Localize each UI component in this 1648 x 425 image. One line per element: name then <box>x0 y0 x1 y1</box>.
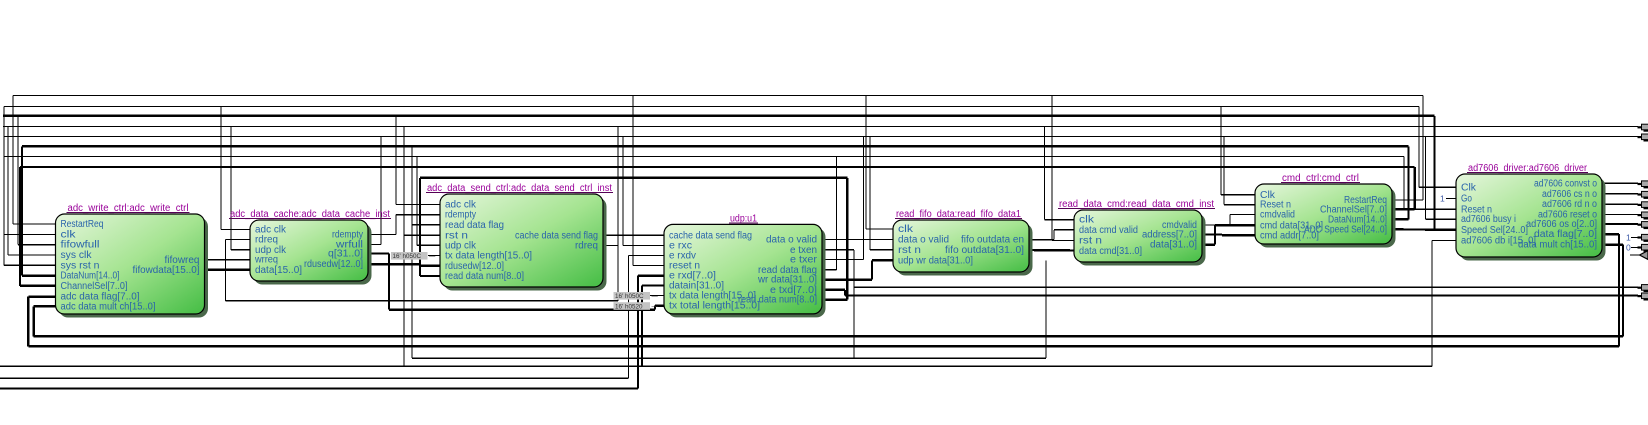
output pin pin L5 <box>1638 134 1648 142</box>
constant 16' h050C <box>391 252 436 260</box>
wire net L7 top <box>4 156 1404 158</box>
wire U8 busy input <box>1426 136 1457 219</box>
output pin ad7606_os_o <box>1638 222 1648 230</box>
module adc_data_send_ctrl:adc_data_send_ctrl_inst <box>426 183 613 291</box>
svg-text:data[15..0]: data[15..0] <box>255 265 302 276</box>
wire q bus to tx_total <box>368 254 664 310</box>
svg-text:Go: Go <box>1461 194 1472 205</box>
svg-text:read data num[8..0]: read data num[8..0] <box>738 295 817 306</box>
wire U8 Clk input <box>1419 107 1456 188</box>
wire U3 adc_clk input <box>396 116 440 205</box>
svg-text:tx data length[15..0]: tx data length[15..0] <box>445 250 532 261</box>
svg-text:—: — <box>652 293 659 300</box>
wire fifo_outdata bus <box>1029 249 1074 252</box>
wire ChannelSel riser bus <box>1392 167 1415 209</box>
svg-text:data cmd valid: data cmd valid <box>1079 225 1138 236</box>
svg-text:16' h050C: 16' h050C <box>393 253 422 260</box>
wire data_o_valid net <box>822 239 893 241</box>
wire U4 e_rxd input bus <box>0 276 664 389</box>
wire U5 clk input <box>866 96 893 230</box>
wire U1 RestartReq input <box>13 96 56 225</box>
wire U3 read_data_flag input <box>412 146 440 358</box>
svg-text:0: 0 <box>1626 243 1631 253</box>
svg-text:rst n: rst n <box>898 245 921 256</box>
wire rdempty net <box>368 215 440 235</box>
output pin ad7606_cs_n_o <box>1638 191 1648 199</box>
output pin pin const0 <box>1638 244 1648 252</box>
wire fifowdata bus <box>205 269 251 271</box>
svg-text:ADC Speed Sel[24..0]: ADC Speed Sel[24..0] <box>1304 224 1387 235</box>
wire e_txen net to pin <box>822 250 1638 358</box>
wire ad7606_rd_n_o net <box>1602 203 1638 205</box>
wire wrfull net <box>368 136 381 244</box>
constant 1 (pin) <box>1626 233 1638 243</box>
svg-text:adc data mult ch[15..0]: adc data mult ch[15..0] <box>61 302 156 313</box>
svg-text:q[31..0]: q[31..0] <box>328 249 363 260</box>
module read_fifo_data:read_fifo_data1 <box>893 209 1033 276</box>
wire mid line 358 <box>412 261 1046 359</box>
wire feedback data_mult_ch bus <box>34 245 1623 337</box>
output pin pin L4 <box>1638 124 1648 132</box>
svg-text:—: — <box>652 303 659 310</box>
svg-text:read data num[8..0]: read data num[8..0] <box>445 271 524 282</box>
output pin pin e_txd <box>1638 293 1648 301</box>
wire net L9 read_data_num loop bus <box>420 177 847 179</box>
svg-text:ad7606 convst o: ad7606 convst o <box>1534 178 1597 189</box>
wire U1 ChannelSel input bus <box>20 167 56 286</box>
constant 0 (pin) <box>1626 243 1638 253</box>
wire RestartReq riser <box>1392 96 1423 201</box>
output pin ad7606_reset_o <box>1638 212 1648 220</box>
wire U4 datain input bus <box>642 286 664 367</box>
wire read_data_num loop drop bus <box>420 178 440 276</box>
wire U1 clk input <box>4 107 56 235</box>
svg-text:rdusedw[12..0]: rdusedw[12..0] <box>304 259 363 270</box>
wire U3 tx_data_length const wire <box>428 254 440 256</box>
svg-text:ad7606 busy i: ad7606 busy i <box>1461 214 1516 225</box>
wire U4 vertical at 618 <box>617 127 619 246</box>
module adc_write_ctrl:adc_write_ctrl <box>56 203 209 318</box>
svg-text:data flag[7..0]: data flag[7..0] <box>1534 229 1597 240</box>
module udp:u1 <box>664 213 826 317</box>
wire rdusedw bus <box>368 264 440 266</box>
wire U6 rst_n input <box>1052 96 1074 241</box>
wire U2 adc_clk input <box>221 107 250 230</box>
wire read_data_flag net up <box>822 157 837 270</box>
wire U1 fifowfull input <box>18 116 56 245</box>
wire net L3 top bus <box>3 115 1435 117</box>
wire fifo_outdata_en net <box>1029 230 1074 240</box>
wire wr_data bus to U5 <box>822 260 893 279</box>
wire net L6 DataNum bus <box>22 145 1409 147</box>
wire address bus <box>1202 233 1255 236</box>
module adc_data_cache:adc_data_cache_inst <box>229 209 391 285</box>
svg-text:data cmd[31..0]: data cmd[31..0] <box>1079 246 1142 257</box>
wire net L8 ChannelSel bus <box>20 166 1415 168</box>
svg-text:16' h0520: 16' h0520 <box>615 303 643 310</box>
wire U1 DataNum input bus <box>22 146 56 275</box>
wire rdreq loop net <box>226 240 618 301</box>
wire cache_data_send_flag net <box>603 234 664 236</box>
wire read_data_num riser bus <box>822 178 847 300</box>
constant 1 (Go input) <box>1440 194 1452 204</box>
svg-text:1: 1 <box>1440 194 1445 204</box>
wire net L5 top <box>4 135 1638 137</box>
wire U7 Clk input <box>1221 107 1255 195</box>
wire U1 sys_rst_n input <box>4 136 56 265</box>
svg-text:rst n: rst n <box>1079 235 1102 246</box>
svg-text:data mult ch[15..0]: data mult ch[15..0] <box>1518 240 1597 251</box>
svg-text:clk: clk <box>898 224 913 235</box>
wire ad7606_convst_o net <box>1602 182 1638 184</box>
svg-text:Clk: Clk <box>1461 182 1476 193</box>
wire U4 reset_n input <box>633 96 664 266</box>
wire U8 db_i input <box>0 240 1456 366</box>
wire U7 Reset_n input <box>1224 136 1255 204</box>
wire net L4 top <box>3 126 1638 128</box>
svg-text:16' h050C: 16' h050C <box>615 293 644 300</box>
svg-text:data[31..0]: data[31..0] <box>1150 240 1197 251</box>
svg-text:fifo outdata[31..0]: fifo outdata[31..0] <box>945 245 1024 256</box>
module ad7606_driver:ad7606_driver <box>1456 163 1606 261</box>
wire U1 sys_clk input <box>8 127 56 256</box>
constant 16' h0520 <box>614 302 659 310</box>
svg-text:udp wr data[31..0]: udp wr data[31..0] <box>898 255 973 266</box>
wire U4 e_rxdv input <box>0 256 664 379</box>
wire U4 e_rxc input <box>623 136 664 245</box>
wire U4 tx_data_length const wire <box>650 295 664 297</box>
wire U5 rst_n input <box>870 136 893 249</box>
wire ad7606_reset_o net <box>1602 213 1638 215</box>
wire e_txd bus to pin <box>822 290 1638 296</box>
output pin ad7606_convst_o <box>1638 181 1648 189</box>
wire U3 rst_n input <box>404 127 440 367</box>
wire fifowreq net <box>205 259 251 261</box>
wire U8 Reset_n input <box>1404 157 1456 210</box>
wire U2 udp_clk input <box>231 127 250 250</box>
wire net L1 top <box>13 95 1423 97</box>
svg-text:fifowdata[15..0]: fifowdata[15..0] <box>133 265 200 276</box>
svg-text:ChannelSel[7..0]: ChannelSel[7..0] <box>61 281 128 292</box>
wire cmdvalid net <box>1202 215 1255 225</box>
svg-text:rdreq: rdreq <box>575 241 598 252</box>
wire ad7606_os_o bus <box>1602 223 1638 225</box>
wire U8 Go const wire <box>1448 198 1456 200</box>
svg-text:—: — <box>429 253 436 260</box>
wire ADC_Speed_Sel bus <box>1392 116 1456 230</box>
wire U3 udp_clk input <box>417 157 440 246</box>
module cmd_ctrl:cmd_ctrl <box>1255 173 1396 248</box>
wire arrow stub <box>1630 254 1640 256</box>
svg-text:Speed Sel[24..0]: Speed Sel[24..0] <box>1461 225 1528 236</box>
constant 16' h050C <box>614 292 659 300</box>
output pin ad7606_rd_n_o <box>1638 202 1648 210</box>
output pin pin const1 <box>1638 234 1648 242</box>
module read_data_cmd:read_data_cmd_inst <box>1058 199 1215 266</box>
wire net L2 top <box>4 106 1419 108</box>
wire U6 clk input <box>1044 127 1074 220</box>
wire DataNum riser bus <box>1392 146 1409 219</box>
wire ad7606_cs_n_o net <box>1602 193 1638 195</box>
wire e_txer net <box>822 136 864 259</box>
svg-text:1: 1 <box>1626 233 1631 243</box>
svg-text:ad7606 cs n o: ad7606 cs n o <box>1542 189 1597 200</box>
output pin pin e_txen <box>1638 285 1648 293</box>
wire data bus <box>1202 225 1255 244</box>
svg-text:read data flag: read data flag <box>445 220 504 231</box>
wire feedback data_flag bus <box>28 234 1619 346</box>
input pin arrow <box>1640 251 1648 260</box>
svg-text:cmdvalid: cmdvalid <box>1260 210 1295 221</box>
